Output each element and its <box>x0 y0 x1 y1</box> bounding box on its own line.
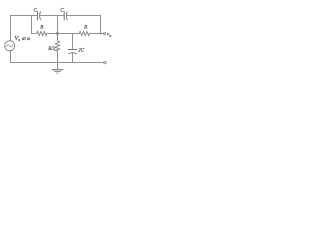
resistor R2 <box>79 31 89 35</box>
svg-text:R: R <box>39 25 44 31</box>
terminal bottom right (open circle) <box>104 62 106 64</box>
node vo junction dot <box>100 33 102 35</box>
voltage source Vs <box>5 41 15 51</box>
wire from C-C midpoint down to middle junction <box>57 16 59 34</box>
node M junction dot <box>56 32 59 35</box>
svg-text:vo: vo <box>107 32 111 38</box>
wire from C2 along top rail to right corner, down to output node <box>67 16 101 34</box>
svg-text:Vs at ω: Vs at ω <box>14 35 31 42</box>
capacitor 2C <box>68 50 76 63</box>
wire source bottom down and along bottom rail <box>11 51 104 63</box>
svg-text:C: C <box>34 8 38 14</box>
wire input tap from top rail down to middle rail <box>32 16 37 34</box>
terminal vo (open circle) <box>104 33 106 35</box>
wire 2C tap down from middle rail <box>72 34 74 50</box>
svg-text:R/2: R/2 <box>47 46 56 52</box>
capacitor C1 <box>38 12 41 20</box>
wire from R1 to middle junction <box>47 33 58 35</box>
resistor R/2 (vertical) <box>55 34 59 63</box>
wire from source top up and along top rail to C1 <box>11 16 38 41</box>
svg-text:2C: 2C <box>78 48 85 53</box>
svg-text:R: R <box>83 25 88 31</box>
svg-text:C: C <box>60 8 64 14</box>
wire output stub to terminal <box>101 33 104 35</box>
wire from C1 to C2 <box>40 15 64 17</box>
wire from middle junction to R2 <box>58 33 80 35</box>
resistor R1 <box>37 31 47 35</box>
ground <box>52 63 62 74</box>
capacitor C2 <box>64 12 67 20</box>
wire from R2 to output node <box>90 33 101 35</box>
